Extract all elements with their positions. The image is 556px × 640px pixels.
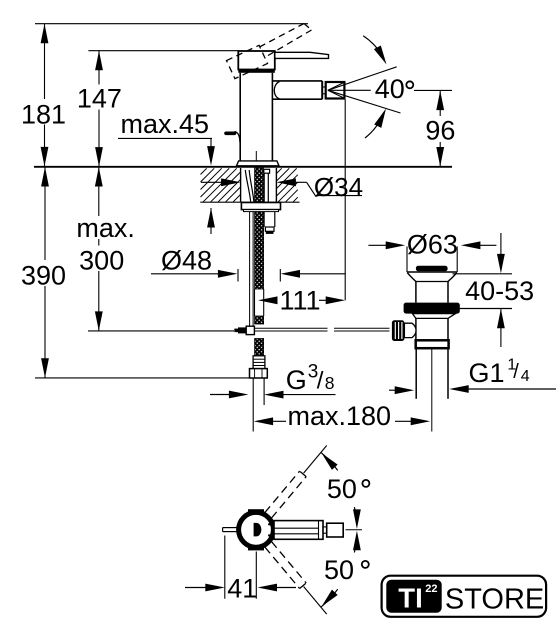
svg-text:Ø48: Ø48: [161, 246, 212, 276]
svg-text:50: 50: [324, 555, 354, 585]
svg-text:G1: G1: [469, 358, 505, 388]
svg-text:390: 390: [21, 261, 66, 291]
svg-text:4: 4: [521, 368, 530, 385]
svg-text:40: 40: [375, 74, 405, 104]
svg-text:STORE: STORE: [445, 583, 544, 615]
svg-text:50: 50: [327, 474, 357, 504]
svg-text:300: 300: [79, 246, 124, 276]
svg-text:G: G: [286, 365, 307, 395]
svg-text:max.180: max.180: [288, 401, 392, 431]
svg-text:22: 22: [425, 583, 437, 595]
svg-text:8: 8: [325, 373, 335, 393]
svg-text:181: 181: [21, 99, 66, 129]
svg-text:147: 147: [77, 84, 122, 114]
svg-text:Ø34: Ø34: [314, 172, 363, 202]
svg-text:max.: max.: [76, 213, 135, 243]
svg-text:41: 41: [227, 574, 257, 604]
svg-text:40-53: 40-53: [465, 276, 534, 306]
svg-text:/: /: [513, 361, 519, 383]
svg-text:Ø63: Ø63: [407, 229, 458, 259]
svg-text:max.45: max.45: [121, 109, 210, 139]
svg-text:96: 96: [425, 115, 455, 145]
svg-text:111: 111: [279, 285, 320, 315]
svg-text:TI: TI: [398, 582, 422, 613]
svg-text:/: /: [317, 367, 324, 394]
